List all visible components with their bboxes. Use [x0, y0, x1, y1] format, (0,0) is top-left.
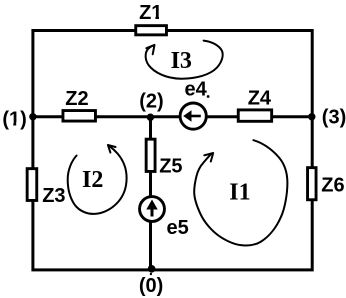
- svg-text:(0): (0): [139, 275, 163, 297]
- svg-text:I1: I1: [229, 180, 250, 206]
- svg-text:Z4: Z4: [248, 87, 272, 109]
- svg-text:e5: e5: [167, 217, 189, 239]
- svg-text:(3): (3): [322, 107, 346, 129]
- svg-text:Z2: Z2: [65, 88, 88, 110]
- svg-text:Z6: Z6: [321, 174, 344, 196]
- svg-text:Z3: Z3: [42, 185, 65, 207]
- svg-text:e4: e4: [185, 78, 208, 100]
- svg-text:Z5: Z5: [159, 156, 182, 178]
- svg-text:I3: I3: [171, 48, 192, 74]
- svg-text:(2): (2): [139, 91, 163, 113]
- svg-text:I2: I2: [82, 167, 103, 193]
- svg-text:(1): (1): [2, 108, 26, 130]
- svg-text:Z1: Z1: [139, 2, 162, 24]
